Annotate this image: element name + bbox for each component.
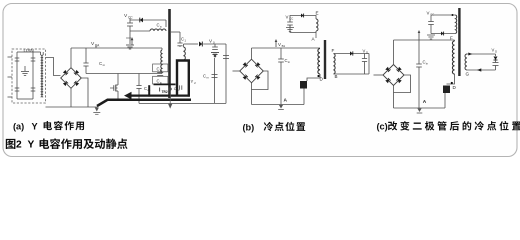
svg-text:CC: CC [128,15,133,19]
svg-text:TR2: TR2 [162,90,168,94]
svg-text:F: F [332,48,335,53]
svg-text:A: A [423,99,427,105]
svg-text:in: in [426,62,429,66]
svg-text:D: D [495,50,497,54]
svg-text:Y: Y [28,139,35,150]
svg-text:V: V [363,48,366,53]
svg-text:2: 2 [16,140,22,151]
svg-text:B: B [335,74,338,79]
svg-text:V: V [286,15,289,20]
svg-text:V: V [278,42,281,47]
svg-text:Y: Y [191,79,194,84]
svg-text:F: F [450,35,453,40]
svg-text:V: V [427,11,430,16]
svg-text:(b): (b) [243,122,255,132]
svg-text:A: A [284,98,288,104]
svg-text:G: G [466,72,470,77]
svg-text:(a): (a) [13,122,24,132]
svg-text:D: D [366,51,368,55]
svg-text:(c): (c) [377,122,388,132]
svg-text:B1: B1 [282,44,286,48]
svg-text:in: in [288,60,291,64]
svg-text:V: V [492,47,495,52]
svg-text:Y: Y [32,121,38,131]
svg-text:E: E [316,11,319,16]
